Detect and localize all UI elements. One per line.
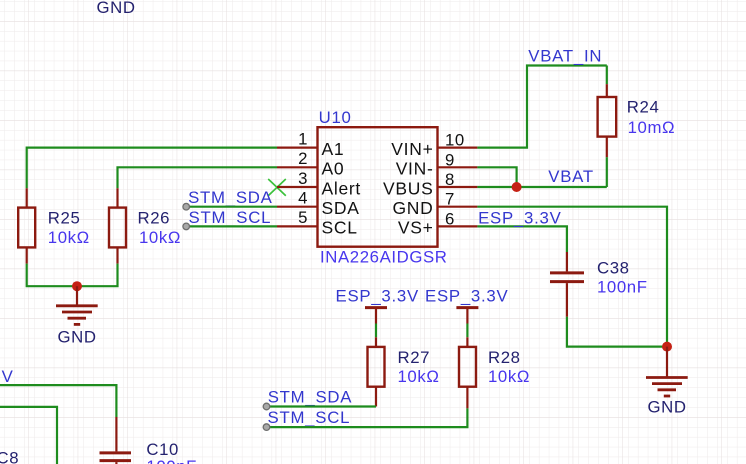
wire V net to C10 bbox=[0, 385, 116, 417]
svg-text:VIN-: VIN- bbox=[396, 159, 434, 179]
wire STM_SDA to pin 4 bbox=[186, 206, 277, 208]
svg-text:5: 5 bbox=[298, 208, 308, 227]
svg-text:A0: A0 bbox=[322, 159, 345, 179]
wire pin1 A1 to R25 bbox=[27, 148, 277, 189]
resistor R26 bbox=[109, 188, 126, 263]
pin 8 stub bbox=[438, 186, 478, 188]
node dangling STM_SCL bbox=[183, 223, 190, 230]
svg-text:VBAT: VBAT bbox=[548, 167, 594, 186]
svg-text:1: 1 bbox=[298, 129, 308, 148]
svg-text:STM_SCL: STM_SCL bbox=[189, 208, 272, 227]
svg-text:10kΩ: 10kΩ bbox=[139, 228, 181, 247]
pin 3 stub bbox=[277, 186, 318, 188]
junction VBAT node bbox=[512, 182, 522, 192]
svg-text:ESP_3.3V: ESP_3.3V bbox=[425, 287, 508, 306]
node dangling STM_SDA bbox=[183, 203, 190, 210]
pin 2 stub bbox=[277, 166, 318, 168]
wire power to R28 bbox=[466, 324, 468, 338]
svg-text:7: 7 bbox=[445, 190, 455, 209]
svg-text:V: V bbox=[2, 367, 14, 386]
svg-text:STM_SCL: STM_SCL bbox=[268, 408, 351, 427]
svg-text:ESP_3.3V: ESP_3.3V bbox=[478, 208, 561, 227]
svg-text:10kΩ: 10kΩ bbox=[398, 367, 440, 386]
junction left ground node bbox=[72, 281, 82, 291]
svg-text:A1: A1 bbox=[322, 139, 345, 159]
power port ESP_3.3V (R27) bbox=[365, 308, 387, 324]
svg-text:GND: GND bbox=[647, 397, 686, 416]
svg-text:100nF: 100nF bbox=[597, 278, 648, 297]
svg-text:STM_SDA: STM_SDA bbox=[188, 188, 273, 207]
power port ESP_3.3V (R28) bbox=[456, 308, 478, 324]
svg-text:R26: R26 bbox=[138, 209, 171, 228]
wire R25/R26 bottoms to ground bbox=[27, 264, 118, 287]
svg-text:R27: R27 bbox=[398, 348, 431, 367]
pin 1 stub bbox=[277, 147, 318, 149]
svg-text:10kΩ: 10kΩ bbox=[48, 228, 90, 247]
svg-text:GND: GND bbox=[97, 0, 136, 17]
svg-text:R28: R28 bbox=[488, 348, 521, 367]
svg-text:R25: R25 bbox=[48, 209, 81, 228]
svg-text:C38: C38 bbox=[597, 259, 630, 278]
wire pin10 to VBAT_IN bbox=[477, 66, 606, 148]
wire VBAT_IN to R24 top bbox=[606, 66, 608, 85]
svg-text:4: 4 bbox=[298, 189, 308, 208]
wire C38 bottom to ground node bbox=[567, 317, 667, 347]
resistor R24 bbox=[598, 84, 617, 157]
svg-text:VS+: VS+ bbox=[398, 218, 434, 238]
resistor R27 bbox=[368, 337, 385, 406]
svg-text:GND: GND bbox=[57, 327, 96, 346]
no-connect X on pin 3 bbox=[268, 179, 286, 196]
ground symbol left bbox=[56, 286, 98, 324]
wire STM_SCL to pin 5 bbox=[186, 225, 277, 227]
IC U10 INA226AIDGSR body bbox=[318, 127, 438, 247]
pin 4 stub bbox=[277, 206, 318, 208]
svg-text:U10: U10 bbox=[319, 108, 352, 127]
svg-text:10: 10 bbox=[445, 131, 465, 150]
svg-text:VBUS: VBUS bbox=[383, 178, 433, 198]
svg-text:VBAT_IN: VBAT_IN bbox=[528, 47, 602, 66]
svg-text:GND: GND bbox=[393, 198, 434, 218]
svg-text:3: 3 bbox=[298, 169, 308, 188]
node dangling STM_SCL bottom bbox=[263, 424, 270, 431]
svg-text:8: 8 bbox=[445, 170, 455, 189]
svg-text:ESP_3.3V: ESP_3.3V bbox=[336, 287, 419, 306]
svg-text:SCL: SCL bbox=[322, 218, 358, 238]
pin 6 stub bbox=[438, 225, 478, 227]
wire STM_SCL to R28 bottom bbox=[266, 408, 467, 427]
svg-text:R24: R24 bbox=[627, 98, 660, 117]
svg-text:100nF: 100nF bbox=[146, 457, 197, 464]
capacitor C38 bbox=[550, 252, 584, 317]
svg-text:VIN+: VIN+ bbox=[391, 139, 433, 159]
pin 7 stub bbox=[438, 206, 478, 208]
svg-text:10kΩ: 10kΩ bbox=[488, 367, 530, 386]
svg-text:INA226AIDGSR: INA226AIDGSR bbox=[320, 248, 448, 267]
pin 10 stub bbox=[438, 147, 478, 149]
svg-text:2: 2 bbox=[298, 149, 308, 168]
resistor R28 bbox=[459, 337, 476, 408]
ground symbol right bbox=[646, 347, 688, 396]
wire power to R27 bbox=[375, 324, 377, 338]
pin 9 stub bbox=[438, 166, 478, 168]
wire pin9 VIN- jog down bbox=[477, 167, 516, 187]
junction right ground node bbox=[662, 342, 672, 352]
svg-text:C8: C8 bbox=[0, 449, 19, 464]
wire pin8 VBUS / VBAT net bbox=[477, 186, 606, 188]
svg-text:STM_SDA: STM_SDA bbox=[268, 388, 353, 407]
wire pin7 GND to lower right bbox=[477, 207, 667, 347]
wire STM_SDA to R27 bottom bbox=[266, 405, 376, 407]
wire pin2 A0 to R26 bbox=[118, 167, 278, 188]
resistor R25 bbox=[18, 188, 35, 263]
svg-text:Alert: Alert bbox=[322, 178, 361, 198]
svg-text:9: 9 bbox=[445, 150, 455, 169]
svg-text:10mΩ: 10mΩ bbox=[628, 118, 676, 137]
svg-text:6: 6 bbox=[445, 209, 455, 228]
svg-text:SDA: SDA bbox=[322, 198, 360, 218]
capacitor C10 bbox=[100, 417, 132, 464]
wire bottom left (cut) bbox=[0, 407, 57, 464]
wire R24 bottom to VBAT node bbox=[606, 157, 608, 187]
wire pin6 VS+ to C38 bbox=[477, 226, 567, 252]
pin 5 stub bbox=[277, 225, 318, 227]
node dangling STM_SDA bottom bbox=[263, 403, 270, 410]
